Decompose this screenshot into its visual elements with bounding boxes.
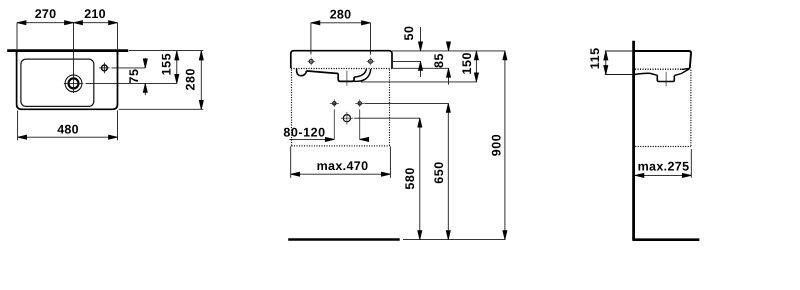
dimension 155 [176,51,178,83]
dimension 75 (outside arrows) [144,58,146,68]
dimension 115 [605,51,607,75]
siphon zone dashed horizontal (side view) [635,146,691,148]
tap hole (top view) [102,65,108,71]
underside right segment (side view) [674,69,689,76]
svg-text:max.470: max.470 [317,159,369,173]
basin underside profile (side view) [635,73,657,75]
svg-text:900: 900 [490,134,504,157]
dimension line 270/210 [17,22,118,24]
floor line thick (front view) [288,238,400,241]
basin bottom dotted edge (side view) [635,68,682,70]
max.470 extension lines [290,146,292,178]
svg-text:280: 280 [330,7,352,21]
furniture zone dashed left [291,70,293,146]
basin bottom right solid segment [682,68,690,69]
extension line bottom edge to 280 dim [119,108,204,110]
trap inner arc (front view) [354,69,366,77]
drain hole (front view) [343,115,350,122]
max.275 extension line [690,149,692,178]
dimension line 480 [18,136,118,138]
svg-text:650: 650 [432,161,446,184]
basin outline (front view) [291,51,392,69]
wall line (top view) [7,49,128,52]
dimension 650 [447,103,449,239]
basin inner bowl (top view) [21,59,94,106]
svg-text:80-120: 80-120 [283,125,325,139]
tap hole left (front view) [309,60,313,64]
drain centerline (front view) [346,71,348,86]
drain centerline (side view) [665,72,667,87]
furniture zone dashed right [389,70,391,146]
extension line trap bottom to 150 [361,81,477,83]
dimension 50 (outside arrows) [420,27,422,51]
115 extension line top [605,50,632,52]
svg-text:85: 85 [432,53,446,68]
furniture zone dashed bottom [292,145,390,147]
dimension 270/210 extension line right [117,23,119,49]
svg-text:150: 150 [460,52,474,75]
svg-text:480: 480 [57,122,79,136]
floor line (side view) [633,238,699,241]
svg-text:210: 210 [84,7,106,21]
trap outer arc (front view) [354,69,371,81]
svg-text:75: 75 [127,68,141,83]
bowl underside curve (front view) [306,71,338,74]
tap hole crosshair [99,67,109,69]
basin top edge (side view) [635,51,691,68]
basin outer outline (top view) [17,52,118,109]
fixation hole right [358,102,361,105]
svg-text:115: 115 [588,47,602,69]
fixation hole left [333,102,336,105]
wall line (side view) [632,41,635,241]
dimension line max.275 [635,174,691,176]
tap hole right (front view) [369,60,373,64]
drain box (front view) [338,74,354,82]
dimension line 280 (front) [311,22,371,24]
drain box (side view) [657,75,674,81]
siphon zone dashed vertical (side view) [690,70,692,147]
drain crosshair [64,82,83,84]
dimension 85 (outside arrows) [448,42,450,51]
115 extension line bottom [605,74,632,76]
extension line top edge to 155/280 dims [129,50,204,52]
dimension 270/210 extension line center [73,23,75,75]
extension line tap hole to 75 dim [112,67,146,69]
extension line basin top to 900 [392,50,505,52]
extension line basin bottom to 85 [392,67,449,69]
drain inner circle (top view) [69,78,79,88]
dimension 150 [475,51,477,82]
extension line drain to 155 dim [86,82,177,84]
dimension line max.470 [291,173,391,175]
fixation hole right centerline down to 80-120 [359,99,361,107]
dimension 580 [419,118,421,239]
svg-text:max.275: max.275 [638,160,690,174]
dimension 280 (left view) [200,51,202,109]
fixation hole left centerline down to 80-120 [333,99,335,107]
overflow hook (front view) [297,69,307,76]
floor extension line to dims [403,239,505,241]
svg-text:50: 50 [402,25,416,40]
dimension 480 extension lines [17,110,19,140]
dimension 270/210 extension line left [16,23,18,49]
extension line drain to 580 [354,117,420,119]
basin bottom edge dotted (front view) [291,68,392,70]
svg-text:270: 270 [35,7,57,21]
dimension 80-120 line [289,138,334,140]
dimension 900 [504,51,506,240]
extension line fixation holes to 650 [365,102,449,104]
extension line tap level to 50 [392,60,421,62]
svg-text:280: 280 [183,68,197,91]
svg-text:580: 580 [403,167,417,190]
dimension 280 extension lines (front) [310,23,312,55]
svg-text:155: 155 [159,53,173,76]
drain outer circle (top view) [65,75,82,92]
